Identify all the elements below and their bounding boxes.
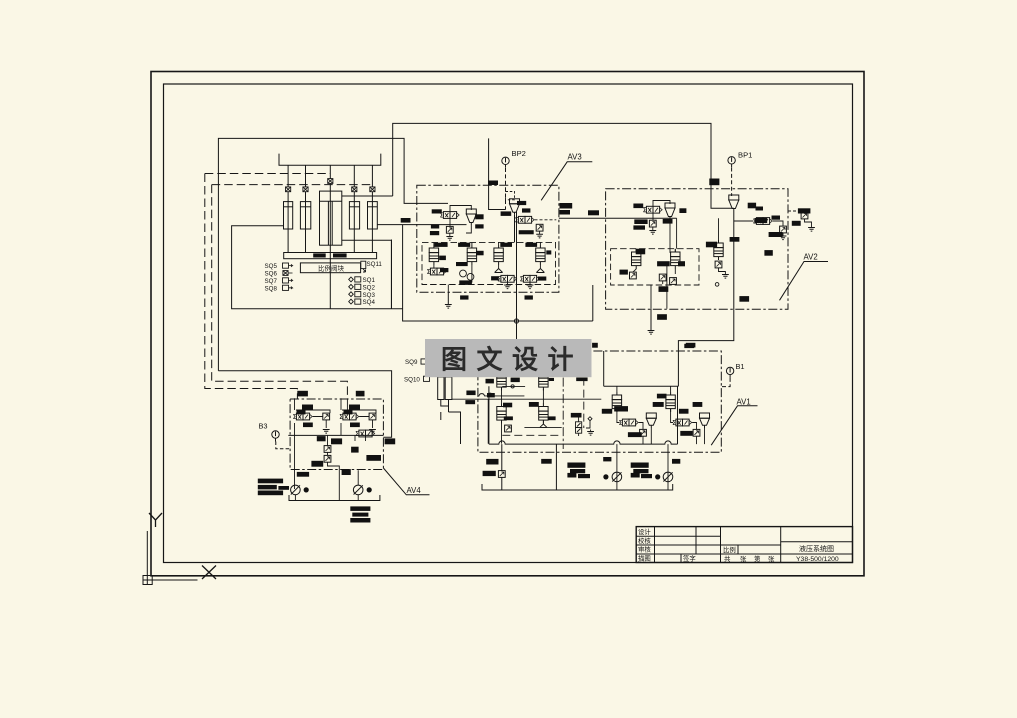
AV4 sol mid right (356, 430, 375, 437)
valve square d1 (286, 187, 291, 192)
dot AV1 a (603, 474, 608, 479)
wire SQ enclosure (232, 226, 403, 309)
svg-text:AV2: AV2 (804, 253, 818, 262)
pilot dash vertical (583, 378, 585, 428)
wire AV3 drain to junction (516, 212, 518, 339)
vertical valve AV2 center (714, 240, 723, 260)
svg-text:比例: 比例 (723, 545, 736, 554)
SQ7 switch (265, 278, 293, 285)
valve group AV3 upper-left: solenoid (440, 212, 459, 219)
solenoid AV1 a (619, 419, 638, 426)
valve unit 2 (467, 245, 476, 265)
valve unit 1 (429, 245, 438, 265)
pilot line left A (205, 174, 298, 400)
valve unit AV2 s1 (632, 249, 641, 269)
AV1 boundary box (478, 351, 721, 452)
wire AV4 pump drop (295, 470, 358, 500)
3way u4 (536, 265, 544, 273)
AV3 boundary box (417, 185, 559, 292)
wire AV2 relief drain (733, 211, 735, 268)
3way L4 (540, 424, 547, 427)
AV4 small valve right (369, 413, 376, 420)
black label bar1 (313, 253, 326, 257)
svg-text:液压系统图: 液压系统图 (799, 544, 834, 553)
small valve AV1 b (693, 429, 700, 436)
AV4 group right solenoid (340, 413, 359, 420)
3way u3 (495, 265, 503, 273)
svg-text:SQ5: SQ5 (265, 263, 278, 270)
wire drop 3 (353, 165, 355, 252)
svg-text:SQ7: SQ7 (265, 278, 278, 285)
wires cluster verticals (488, 389, 543, 444)
sol u3 low (498, 275, 517, 282)
tank right outside (808, 228, 815, 232)
wire drop center (329, 165, 331, 308)
AV4 mid rail (288, 434, 383, 436)
tank u4 (527, 285, 534, 289)
tank line AV1 (482, 484, 673, 490)
title block (636, 527, 852, 563)
SQ4 switch (349, 299, 376, 306)
wire y427 (524, 426, 561, 428)
small valve AV1 left (498, 471, 505, 478)
pilot box dashes (506, 192, 515, 200)
svg-text:SQ9: SQ9 (405, 359, 418, 366)
cone valve AV2 ul (665, 203, 675, 219)
AV4 lower wires (328, 435, 366, 500)
valve unit 3 (494, 245, 503, 265)
svg-text:校核: 校核 (638, 536, 651, 545)
valve unit 4 (536, 245, 545, 265)
tank AV2 ul (652, 227, 654, 231)
wire drop 2 (305, 165, 307, 252)
AV1 inner box (489, 386, 679, 444)
valve L2 (539, 371, 548, 391)
small valve AV1 a (640, 429, 647, 436)
wire right drain up (592, 285, 594, 321)
dot AV4 right (367, 487, 372, 492)
solenoid AV2 mid (753, 218, 772, 225)
pilot line left B top (212, 184, 373, 186)
wire header staple (279, 154, 381, 166)
filter AV1 a (612, 472, 622, 482)
AV4 lower valve2 (324, 455, 331, 462)
small valve L (505, 425, 512, 432)
valve unit AV1 b (666, 392, 675, 412)
AV4 lower small valve (324, 446, 331, 453)
wire big cyl bottom to right down (342, 240, 392, 309)
wire AV3 left drain tank (447, 292, 449, 305)
relief valve main AV3 (510, 199, 520, 215)
outer frame (151, 72, 864, 576)
leader AV3 (541, 162, 592, 201)
SQ6 switch (265, 271, 293, 278)
wire AV1 inner bottom with hops (489, 441, 678, 444)
tank center (722, 275, 729, 279)
AV2 boundary box (606, 189, 788, 309)
pilot line left B (212, 185, 348, 399)
cylinder 1 (284, 202, 293, 229)
small valve AV2 mid (780, 226, 787, 233)
svg-text:BP1: BP1 (738, 151, 752, 160)
wire AV1 mid drop (555, 444, 557, 490)
node (511, 385, 514, 388)
wire SQ right edge (391, 240, 393, 309)
wire drop 4 (371, 165, 373, 252)
label SQ10 (404, 376, 430, 383)
tank u3 (504, 285, 511, 289)
sub circles u2 (460, 265, 474, 282)
SQ3 switch (349, 292, 376, 299)
valve L3 (497, 404, 506, 424)
tank AV4 right (369, 430, 376, 434)
SQ2 switch (349, 284, 376, 291)
wire y386 (502, 385, 525, 387)
wire AV2 left entry (676, 218, 678, 249)
svg-text:AV3: AV3 (568, 153, 582, 162)
svg-text:SQ11: SQ11 (367, 261, 383, 268)
leader AV4 (383, 468, 429, 495)
valve L4 (539, 404, 548, 424)
wire main flow manifold to AV3 (377, 224, 466, 226)
cylinder 3 (349, 202, 359, 229)
SQ1 switch (349, 277, 376, 284)
tank AV2 mid (782, 233, 784, 236)
svg-text:SQ3: SQ3 (363, 292, 376, 299)
svg-text:共: 共 (724, 554, 731, 563)
solenoid AV1 b (673, 419, 692, 426)
svg-text:设计: 设计 (638, 527, 651, 536)
valve unit AV2 s2 (671, 249, 680, 269)
sub drain u1 (433, 265, 435, 268)
wire AV2 ground drop (650, 309, 652, 331)
small valve AV2 ul (649, 220, 656, 227)
vertical solenoid R (576, 416, 593, 437)
tank (648, 331, 655, 335)
inner frame (164, 84, 853, 563)
wire AV3 to AV2 (559, 217, 677, 219)
svg-text:第: 第 (754, 554, 761, 563)
AV4 group left solenoid (293, 413, 312, 420)
AV2 sub-box (611, 249, 699, 285)
manifold bar (284, 253, 377, 259)
AV3 sub-box (422, 242, 556, 284)
valve square d4 (370, 187, 375, 192)
wire dash feed right (346, 398, 348, 410)
wire sub drains (633, 249, 675, 284)
wire drop 1 (287, 165, 289, 252)
SQ8 switch (265, 285, 293, 292)
small valve AV2 right outside (801, 212, 808, 219)
gauge BP1 (728, 157, 735, 168)
svg-text:AV4: AV4 (407, 486, 422, 495)
cone valve ul (466, 209, 476, 225)
valve L1 (497, 371, 506, 391)
cylinder big (320, 191, 342, 245)
valve square center (328, 179, 333, 184)
cylinder 4 (368, 202, 378, 229)
pilot line left A top (205, 173, 330, 175)
wire subbox feeds (434, 242, 541, 291)
drain stem u3 (508, 282, 531, 285)
wire AV2 drain to AV1 (678, 268, 733, 386)
relief small AV1 a (646, 413, 656, 428)
svg-text:比例阀块: 比例阀块 (318, 263, 345, 272)
svg-text:SQ2: SQ2 (363, 284, 376, 291)
accumulator pair below watermark (438, 377, 461, 444)
Y axis label (149, 513, 162, 527)
pilot dash right (535, 219, 557, 221)
tank line AV4 (289, 495, 380, 501)
title block texts (638, 527, 839, 563)
pilot line B3 (276, 442, 290, 449)
pump AV4 left (291, 485, 301, 495)
pump AV4 right (353, 485, 363, 495)
AV1 left cluster black labels (465, 378, 587, 421)
SQ5 switch (265, 263, 293, 270)
node junction (514, 319, 518, 323)
wire manifold top rect (218, 138, 448, 370)
svg-text:BP2: BP2 (512, 149, 526, 158)
wire y399 main (452, 398, 601, 400)
wire AV1 left inner vertical (603, 351, 605, 386)
leader AV2 (780, 262, 829, 301)
svg-text:审核: 审核 (638, 545, 651, 554)
tank ul (449, 233, 451, 236)
wire branch down at x402.6 (403, 225, 593, 321)
relief small AV1 b (700, 413, 710, 428)
wire drain right outside (805, 219, 812, 228)
solenoid right of relief (515, 216, 534, 223)
small valve below s2 (659, 274, 666, 281)
node small circle (715, 283, 719, 287)
black label bar2 (333, 253, 347, 257)
svg-text:张: 张 (768, 554, 775, 563)
filter AV1 b (663, 472, 673, 482)
valve square d2 (303, 187, 308, 192)
svg-text:SQ10: SQ10 (404, 377, 420, 384)
AV4 wires left (295, 398, 331, 489)
small valve below center (715, 261, 722, 268)
svg-text:描图: 描图 (638, 554, 651, 563)
wire AV2 internal verticals (651, 266, 667, 309)
svg-text:SQ1: SQ1 (363, 277, 376, 284)
svg-text:SQ4: SQ4 (363, 299, 376, 306)
wire center valve drain (719, 218, 726, 274)
UCS origin marker (143, 531, 198, 585)
svg-text:签字: 签字 (683, 554, 696, 563)
valve square d3 (352, 187, 357, 192)
wire relief drain (514, 215, 516, 243)
small valve below s1 (630, 272, 637, 279)
leader AV1 (711, 406, 757, 445)
tank R (587, 432, 594, 436)
small valve r (536, 224, 543, 231)
AV4 wires right (341, 398, 376, 435)
tank r (539, 231, 541, 234)
gauge BP2 (502, 157, 509, 168)
gauge B3 (272, 431, 279, 442)
wire left rail to AV4 side (218, 371, 391, 438)
svg-text:B3: B3 (259, 422, 268, 431)
wire top loop (393, 123, 734, 208)
wire AV1 left drop (501, 444, 503, 490)
pilot line BP2 (505, 168, 507, 210)
dot AV1 b (655, 474, 660, 479)
boundary dash-dot (562, 378, 564, 449)
tank AV4 left (323, 430, 330, 434)
AV4 boundary box (290, 399, 383, 470)
pilot dashes to right valve (788, 210, 800, 212)
proportional block box (300, 263, 360, 273)
relief valve AV2 main (729, 195, 739, 211)
AV4 small valve left (323, 413, 330, 420)
small valve ul (446, 226, 453, 233)
valve group AV2 upper-left solenoid (643, 206, 662, 213)
wire ul links (450, 206, 471, 234)
wires AV1 b (668, 386, 705, 490)
gauge B1 (726, 367, 733, 378)
svg-text:Y38-500/1200: Y38-500/1200 (796, 556, 839, 563)
pilot line BP1 (731, 168, 733, 197)
svg-text:AV1: AV1 (737, 398, 751, 407)
wire AV2 ul links (653, 201, 670, 253)
wire AV3 supply (489, 138, 506, 209)
sub valve below u1 (427, 268, 446, 275)
wire big cylinder to top loop (342, 195, 393, 197)
wire y396 bumped (478, 393, 525, 396)
cylinder 2 (300, 202, 310, 229)
X axis label (202, 566, 216, 580)
sol u4 low (520, 275, 539, 282)
svg-text:张: 张 (740, 554, 747, 563)
svg-text:SQ6: SQ6 (265, 271, 278, 278)
label SQ9 (405, 359, 427, 366)
pilot line B1 (721, 378, 730, 387)
valve unit AV1 a (612, 392, 621, 412)
dot AV4 left (304, 487, 309, 492)
svg-text:B1: B1 (736, 362, 745, 371)
SQ11 switch (361, 261, 366, 272)
wire sol to relief (734, 221, 783, 226)
svg-text:SQ8: SQ8 (265, 285, 278, 292)
svg-text:图 文 设 计: 图 文 设 计 (441, 345, 575, 375)
small valve below s2b (670, 278, 677, 285)
pilot dash sub-box (502, 434, 561, 436)
wires AV1 a (617, 386, 651, 490)
